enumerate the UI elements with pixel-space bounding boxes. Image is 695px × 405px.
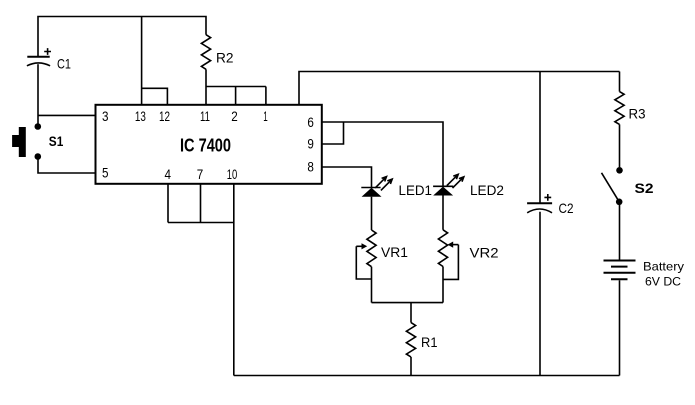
svg-text:7: 7 [197,166,204,182]
wire IC pin 10 down to ground rail [233,184,235,376]
wire IC pin 6 to LED2 [322,122,443,186]
svg-text:R1: R1 [421,334,438,350]
wire LED1 to VR1 [371,197,373,230]
svg-text:2: 2 [231,108,238,124]
wire IC pin 14 to top-right supply rail [299,72,620,105]
op-amp U1 IC 7400 body [96,105,322,184]
svg-text:LED2: LED2 [470,182,504,198]
wire IC pin 9 to pin 6 net [322,122,344,144]
wire VR1 VR2 junction bar to R1 [372,302,444,304]
wire LED2 to VR2 [442,196,444,230]
svg-text:R3: R3 [629,106,646,122]
wire R2 bottom to IC pins 11 2 1 [206,69,266,105]
capacitor C1 [27,48,71,71]
wire S1 top to IC pin 3 [38,114,96,116]
wire VR1 bottom [371,267,373,303]
svg-text:9: 9 [307,136,314,152]
svg-text:C1: C1 [57,56,71,72]
battery BT1 6V DC [604,260,685,289]
svg-text:4: 4 [164,166,171,182]
svg-text:R2: R2 [216,50,234,66]
wire VR2 bottom [442,267,444,303]
svg-text:C2: C2 [559,200,574,216]
svg-text:6: 6 [307,114,314,130]
svg-text:Battery: Battery [643,260,684,274]
svg-text:13: 13 [135,108,146,124]
svg-text:11: 11 [200,108,210,124]
svg-text:12: 12 [159,108,170,124]
switch S2 [602,167,654,205]
svg-text:8: 8 [307,159,314,175]
wire bottom ground rail [234,375,620,377]
svg-text:IC 7400: IC 7400 [180,136,231,156]
resistor R2 [201,35,233,70]
svg-text:1: 1 [263,108,268,124]
svg-text:10: 10 [227,166,238,182]
wire top rail to IC pins 13 and 12 [142,17,168,105]
capacitor C2 [527,72,574,376]
svg-text:3: 3 [102,108,109,124]
svg-text:5: 5 [102,165,109,181]
wire S2 to battery [619,203,621,260]
variable resistor VR2 [438,230,498,280]
wire S1 bottom to IC pin 5 [38,157,96,174]
LED2 [433,174,504,198]
svg-text:VR1: VR1 [381,244,408,260]
svg-text:S2: S2 [635,180,654,196]
svg-text:LED1: LED1 [399,182,433,198]
wire C1 bottom to S1 top contact [37,64,39,126]
pushbutton S1 [12,123,63,160]
svg-text:S1: S1 [49,133,64,149]
resistor R3 [615,72,646,168]
variable resistor VR1 [356,230,408,279]
resistor R1 [406,303,437,376]
LED1 [361,177,432,198]
wire top-left rail C1 to R2 [38,17,206,57]
svg-text:VR2: VR2 [470,245,499,261]
wire IC pin 8 to LED1 [322,167,372,188]
svg-text:6V DC: 6V DC [645,275,681,289]
wire IC pins 4 7 joined to pin 10 [168,184,234,223]
wire battery bottom to ground rail [619,280,621,375]
